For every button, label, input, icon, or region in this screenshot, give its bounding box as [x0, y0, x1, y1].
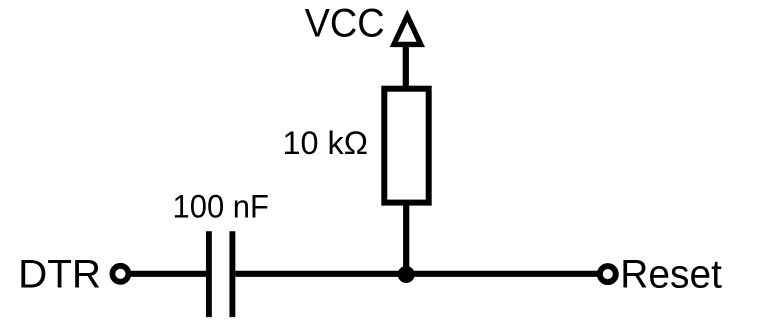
capacitor C1 (100 nF) left plate	[206, 231, 212, 317]
svg-text:VCC: VCC	[305, 2, 385, 46]
svg-text:10 kΩ: 10 kΩ	[283, 125, 369, 161]
wire: VCC arrow to resistor	[403, 44, 409, 90]
svg-text:DTR: DTR	[18, 252, 101, 296]
terminal Reset (open circle)	[600, 266, 616, 282]
VCC power symbol arrow	[390, 10, 425, 48]
svg-text:100 nF: 100 nF	[173, 188, 269, 224]
terminal DTR (open circle)	[112, 266, 128, 282]
wire: resistor to junction node	[403, 203, 409, 274]
wire: capacitor through junction to Reset terminal	[235, 271, 598, 277]
junction node (solder dot)	[398, 266, 415, 283]
capacitor C1 (100 nF) right plate	[229, 231, 235, 317]
resistor R1 (10 kOhm) body	[384, 89, 428, 203]
svg-text:Reset: Reset	[620, 252, 722, 296]
wire: DTR terminal to capacitor	[130, 271, 207, 277]
